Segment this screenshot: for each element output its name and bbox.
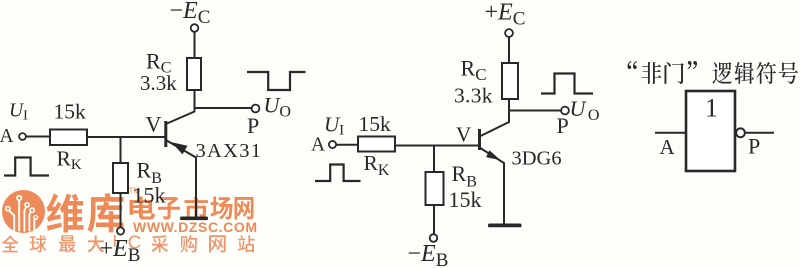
output terminal P (middle)	[561, 107, 569, 115]
svg-text:A: A	[660, 135, 676, 159]
wire RK to base	[87, 136, 165, 138]
terminal circle -EB (middle)	[430, 234, 438, 242]
resistor RC box (left)	[187, 58, 201, 90]
svg-text:P: P	[247, 113, 259, 138]
svg-text:V: V	[456, 123, 471, 147]
svg-text:A: A	[311, 135, 325, 156]
svg-text:15k: 15k	[133, 183, 166, 208]
svg-text:1: 1	[705, 94, 718, 123]
svg-text:P: P	[748, 134, 760, 159]
watermark text 电子市场网	[130, 197, 155, 220]
svg-text:P: P	[557, 113, 569, 138]
wire RC to collector junction (middle)	[509, 99, 561, 111]
svg-text:WWW.DZSC.COM: WWW.DZSC.COM	[133, 219, 258, 235]
wire junction to RB (middle)	[433, 146, 435, 173]
wire RC to collector junction (left)	[195, 90, 252, 108]
wire RK to base (middle)	[395, 145, 479, 147]
output terminal P (left)	[252, 105, 260, 113]
node A input terminal (left circuit)	[19, 133, 26, 140]
watermark logo circuit traces	[9, 201, 34, 231]
emitter wire with PNP arrow (left)	[166, 140, 196, 217]
collector wire (left)	[166, 108, 195, 125]
terminal +EC (middle)	[505, 29, 513, 37]
svg-text:15k: 15k	[449, 187, 482, 212]
wire -EC to RC (left)	[194, 32, 196, 58]
watermark logo circle	[2, 190, 45, 233]
inversion bubble	[736, 128, 745, 137]
svg-text:15k: 15k	[54, 99, 87, 123]
wire RB to -EB terminal (middle)	[433, 205, 435, 234]
emitter wire with NPN arrow (middle)	[480, 148, 505, 225]
gate input wire	[655, 132, 686, 134]
resistor RK box (middle)	[358, 137, 395, 152]
node A input terminal (middle circuit)	[329, 141, 336, 148]
wire A to RK (middle)	[336, 144, 358, 146]
svg-text:15k: 15k	[359, 112, 392, 136]
svg-text:V: V	[146, 112, 162, 137]
input waveform pulse (middle)	[315, 165, 361, 182]
NOT gate box U1	[686, 91, 735, 171]
ground bar (left)	[180, 217, 208, 221]
svg-text:A: A	[0, 126, 14, 147]
wire junction to RB (left)	[120, 137, 122, 163]
resistor RB box (left)	[113, 163, 128, 193]
svg-text:3DG6: 3DG6	[512, 148, 562, 170]
svg-text:3.3k: 3.3k	[140, 71, 177, 95]
gate output wire	[745, 132, 774, 134]
watermark text 维库	[46, 193, 83, 232]
collector wire (middle)	[480, 110, 510, 137]
ground bar (middle)	[488, 224, 522, 228]
wire +EC to RC (middle)	[508, 37, 510, 63]
terminal circle +EB (left)	[117, 227, 124, 234]
wire A to RK	[26, 136, 50, 138]
output waveform pulse (middle)	[541, 74, 593, 94]
title 非门 逻辑符号	[628, 61, 637, 69]
transistor Q1 base bar (3AX31)	[164, 121, 167, 147]
svg-text:3AX31: 3AX31	[196, 140, 263, 162]
resistor RB box (middle)	[426, 172, 444, 205]
watermark slogan row	[2, 235, 19, 252]
input waveform pulse (left)	[4, 158, 49, 176]
terminal -EC (left)	[191, 24, 199, 32]
resistor RC box (middle)	[502, 63, 518, 99]
svg-text:3.3k: 3.3k	[454, 84, 493, 108]
transistor Q2 base bar (3DG6)	[478, 129, 481, 150]
wire RB to +EB terminal	[120, 193, 122, 227]
resistor RK box (left)	[50, 130, 87, 146]
output waveform notch (left)	[247, 72, 306, 90]
